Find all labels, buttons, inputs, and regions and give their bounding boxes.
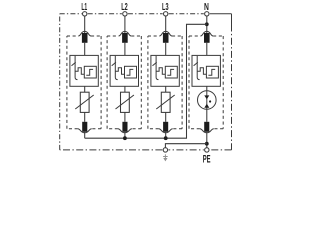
module 3 top plug contact [163, 33, 169, 43]
wire contact to trigger unit [206, 43, 208, 56]
module 4 bottom plug bump [200, 129, 214, 133]
wire L1 down to module [84, 16, 86, 33]
border right side: solid lead then dash-dot [231, 14, 233, 30]
wire earth terminal branch to PE wire [165, 144, 206, 148]
junction dot rail/module2 [123, 136, 127, 140]
module 3 top plug bump [159, 31, 172, 36]
N-PE spark gap symbol [198, 91, 217, 110]
wire varistor to bottom contact [124, 112, 126, 121]
module 2 dashed housing [107, 36, 141, 129]
wire trigger unit to N-PE spark gap [206, 86, 208, 90]
wire module 1 bottom to rail [84, 132, 86, 138]
wire varistor to bottom contact [84, 112, 86, 121]
varistor (MOV) of module 3 [156, 92, 174, 112]
junction dot rail/module3 [164, 136, 168, 140]
module 1 top plug bump [78, 31, 91, 36]
module 2 bottom plug contact [122, 122, 127, 132]
wire spark gap to bottom contact [206, 109, 208, 122]
module 1 top plug contact [82, 33, 88, 43]
module 3 triggered spark-gap unit box [151, 55, 179, 86]
module 1 triggered spark-gap unit box [70, 55, 98, 86]
wire module 3 bottom to rail [165, 132, 167, 138]
wire trigger unit to varistor [84, 86, 86, 92]
module 2 triggered spark-gap unit box [110, 55, 138, 86]
terminal L1 circle [83, 12, 87, 16]
PE terminal circle [205, 148, 209, 152]
terminal L2 circle [123, 12, 127, 16]
wire N junction left and down to bottom rail [85, 24, 207, 138]
module 3 bottom plug bump [159, 129, 173, 133]
wire module 2 bottom to rail [124, 132, 126, 138]
wire trigger unit to varistor [124, 86, 126, 92]
module 4 dashed housing [189, 36, 223, 129]
module 2 bottom plug bump [118, 129, 132, 133]
wire varistor to bottom contact [165, 112, 167, 121]
module 4 top plug contact [204, 33, 210, 43]
varistor (MOV) of module 2 [116, 92, 134, 112]
junction dot PE branch [205, 142, 209, 146]
wire N down to module [206, 16, 208, 33]
wire module 4 bottom to PE terminal [206, 132, 208, 148]
earth terminal circle [163, 148, 167, 152]
terminal N circle [205, 12, 209, 16]
wire L2 down to module [124, 16, 126, 33]
wire L3 down to module [165, 16, 167, 33]
svg-text:PE: PE [203, 154, 211, 164]
earth electrode symbol (grey) [163, 154, 168, 161]
border segment N to top-right corner (solid lead of dash) [210, 13, 232, 15]
module 3 bottom plug contact [163, 122, 168, 132]
module 2 top plug bump [119, 31, 132, 36]
module 3 dashed housing [148, 36, 182, 129]
module 1 bottom plug contact [82, 122, 87, 132]
module 4 top plug bump [201, 31, 214, 36]
module 4 bottom plug contact [204, 122, 209, 132]
module 2 top plug contact [122, 33, 128, 43]
wire contact to trigger unit [165, 43, 167, 56]
wire trigger unit to varistor [165, 86, 167, 92]
border bottom side (dash-dot, longer dashes) [60, 149, 232, 151]
module 1 dashed housing [67, 36, 101, 129]
wire contact to trigger unit [124, 43, 126, 56]
module 4 triggered spark-gap unit box [192, 55, 220, 86]
module 1 bottom plug bump [78, 129, 92, 133]
varistor (MOV) of module 1 [75, 92, 93, 112]
enclosure dash-dot border [60, 14, 204, 150]
wire contact to trigger unit [84, 43, 86, 56]
terminal L3 circle [164, 12, 168, 16]
node: N junction dot [205, 22, 209, 26]
